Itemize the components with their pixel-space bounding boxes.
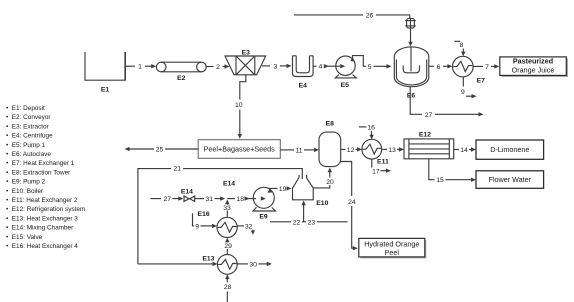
svg-text:• E10: Boiler: • E10: Boiler <box>6 188 44 195</box>
svg-text:E1: E1 <box>101 87 110 94</box>
wire stream 19 <box>268 186 292 193</box>
wire stream 20 <box>313 168 334 188</box>
wire stream 27 lower with valve E15 <box>150 189 194 204</box>
pump E5 <box>335 56 356 89</box>
svg-text:• E5: Pump 1: • E5: Pump 1 <box>6 142 46 149</box>
wire stream 16 <box>359 124 375 139</box>
svg-text:E10: E10 <box>316 200 328 207</box>
wire stream 9 from E7 <box>461 77 476 99</box>
svg-text:Orange Juice: Orange Juice <box>512 66 555 75</box>
wire stream 2 <box>206 64 229 71</box>
svg-text:• E13: Heat Exchanger 3: • E13: Heat Exchanger 3 <box>6 215 78 222</box>
svg-text:E5: E5 <box>341 82 350 89</box>
wire stream 12 <box>341 147 362 154</box>
svg-text:10: 10 <box>235 102 243 109</box>
svg-text:• E6: Autoclave: • E6: Autoclave <box>6 151 51 158</box>
heat exchanger E13 <box>202 255 237 275</box>
svg-text:• E2: Conveyor: • E2: Conveyor <box>6 114 51 121</box>
heat exchanger E7 <box>453 56 486 84</box>
wire stream 11 <box>280 147 319 154</box>
svg-text:1: 1 <box>138 64 142 71</box>
svg-text:28: 28 <box>224 284 232 291</box>
svg-text:3: 3 <box>274 63 278 70</box>
svg-text:27: 27 <box>425 112 433 119</box>
svg-text:13: 13 <box>388 147 396 154</box>
svg-text:9: 9 <box>195 223 199 230</box>
svg-text:2: 2 <box>216 64 220 71</box>
svg-text:Flower Water: Flower Water <box>489 175 532 184</box>
centrifuge E4 <box>293 56 314 90</box>
svg-text:26: 26 <box>366 12 374 19</box>
svg-text:Peel: Peel <box>385 248 400 257</box>
box Hydrated Orange Peel <box>359 238 427 258</box>
svg-text:Pasteurized: Pasteurized <box>513 56 553 65</box>
wire stream 7 <box>473 64 499 71</box>
svg-text:• E15: Valve: • E15: Valve <box>6 234 43 241</box>
svg-text:12: 12 <box>347 147 355 154</box>
svg-text:22: 22 <box>293 219 301 226</box>
wire stream 18 <box>227 196 265 203</box>
wire stream 4 <box>313 64 345 71</box>
svg-text:20: 20 <box>326 179 334 186</box>
svg-text:• E4: Centrifuge: • E4: Centrifuge <box>6 133 53 140</box>
wire stream 9 into E16 <box>193 213 218 230</box>
box Flower Water <box>476 171 544 189</box>
wire stream 17 <box>372 159 391 175</box>
tower E8 <box>319 121 341 167</box>
svg-text:E3: E3 <box>242 49 251 56</box>
pump E9 <box>253 187 276 220</box>
wire stream 15 <box>429 159 476 184</box>
svg-text:23: 23 <box>308 219 316 226</box>
svg-text:24: 24 <box>348 199 356 206</box>
svg-text:33: 33 <box>223 205 231 212</box>
wire stream 26 with fitting valve <box>294 12 416 46</box>
svg-text:29: 29 <box>224 243 232 250</box>
svg-text:19: 19 <box>279 186 287 193</box>
svg-text:E11: E11 <box>377 158 389 165</box>
svg-text:E8: E8 <box>326 121 335 128</box>
svg-text:E2: E2 <box>177 75 186 82</box>
svg-text:25: 25 <box>156 147 164 154</box>
svg-text:16: 16 <box>367 124 375 131</box>
wire stream 29 <box>224 238 232 255</box>
box Peel+Bagasse+Seeds <box>198 140 280 159</box>
wire stream 27 from E6 bottom <box>410 87 483 119</box>
svg-text:E9: E9 <box>259 214 268 221</box>
svg-text:• E7: Heat Exchanger 1: • E7: Heat Exchanger 1 <box>6 160 75 167</box>
valve E15 (bowtie) <box>184 196 195 201</box>
wire stream 30 <box>237 261 272 268</box>
svg-text:Peel+Bagasse+Seeds: Peel+Bagasse+Seeds <box>204 145 276 154</box>
svg-text:E14: E14 <box>223 181 235 188</box>
svg-text:E12: E12 <box>419 132 431 139</box>
wire stream 31 <box>195 196 226 203</box>
wire stream 21 <box>138 166 302 264</box>
svg-text:E14: E14 <box>181 189 193 196</box>
svg-text:17: 17 <box>372 168 380 175</box>
wire stream 1 <box>125 64 156 71</box>
wire stream 3 <box>262 63 292 70</box>
node mixing chamber E14 and wire stream 33 <box>223 181 235 217</box>
box Pasteurized Orange Juice <box>500 56 568 77</box>
svg-text:27: 27 <box>164 196 172 203</box>
svg-text:5: 5 <box>368 64 372 71</box>
svg-text:E6: E6 <box>407 93 416 100</box>
wire stream 32 <box>237 223 255 234</box>
wire stream 10 <box>235 75 246 139</box>
extractor E3 <box>225 49 266 75</box>
svg-text:E13: E13 <box>202 256 214 263</box>
heat exchanger E11 <box>362 139 389 165</box>
svg-text:8: 8 <box>460 42 464 49</box>
svg-text:D-Limonene: D-Limonene <box>490 145 529 154</box>
boiler E10 <box>293 175 329 207</box>
conveyor E2 <box>156 62 206 82</box>
svg-text:21: 21 <box>174 166 182 173</box>
svg-text:6: 6 <box>437 64 441 71</box>
wire into E13 from stream 21 <box>138 262 218 266</box>
wire stream 28 <box>224 274 232 302</box>
box D-Limonene <box>476 140 544 159</box>
wire stream 25 <box>125 147 199 154</box>
wire stream 5 <box>350 56 391 71</box>
svg-text:• E8: Extraction Tower: • E8: Extraction Tower <box>6 169 71 176</box>
svg-text:18: 18 <box>237 196 245 203</box>
svg-text:• E14: Mixing Chamber: • E14: Mixing Chamber <box>6 225 74 232</box>
wire stream 6 <box>429 64 453 71</box>
wire stream 24 <box>341 162 358 251</box>
wire streams 22 and 23 <box>270 201 348 227</box>
heat exchanger E16 <box>198 211 238 238</box>
svg-text:11: 11 <box>295 147 302 154</box>
svg-text:• E3: Extractor: • E3: Extractor <box>6 123 50 130</box>
svg-text:• E9: Pump 2: • E9: Pump 2 <box>6 179 46 186</box>
svg-text:15: 15 <box>436 177 444 184</box>
svg-text:E16: E16 <box>198 211 210 218</box>
tank E1 <box>85 52 125 94</box>
svg-text:E4: E4 <box>299 82 308 89</box>
svg-text:E7: E7 <box>477 78 486 85</box>
svg-text:• E16: Heat Exchanger 4: • E16: Heat Exchanger 4 <box>6 243 78 250</box>
wire stream 13 <box>382 147 404 154</box>
wire stream 8 <box>454 41 465 56</box>
svg-text:• E11: Heat Exchanger 2: • E11: Heat Exchanger 2 <box>6 197 78 204</box>
svg-text:14: 14 <box>460 147 468 154</box>
legend list <box>6 105 85 250</box>
svg-text:4: 4 <box>319 64 323 71</box>
autoclave E6 <box>394 47 429 100</box>
svg-text:30: 30 <box>249 261 257 268</box>
svg-text:32: 32 <box>245 223 253 230</box>
svg-text:31: 31 <box>206 196 214 203</box>
svg-text:• E1: Deposit: • E1: Deposit <box>6 105 45 112</box>
svg-text:7: 7 <box>485 64 489 71</box>
svg-text:• E12: Refrigeration system: • E12: Refrigeration system <box>6 206 85 213</box>
svg-text:9: 9 <box>461 89 465 96</box>
heat exchanger E12 refrigeration system <box>404 132 454 159</box>
wire stream 14 <box>454 147 476 154</box>
